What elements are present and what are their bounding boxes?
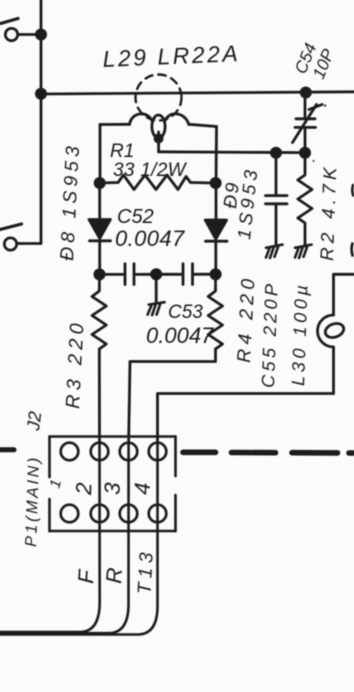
node: junction dot main wire / left bus <box>35 88 47 100</box>
wire: pin3 through-wire and exit curve <box>0 443 129 633</box>
svg-text:1S953: 1S953 <box>233 165 262 240</box>
pin 3 top circle <box>120 443 138 461</box>
wire: tap horizontal to C55/R2/C54 node <box>159 150 305 154</box>
svg-text:Đ8 1S953: Đ8 1S953 <box>57 141 84 261</box>
node: junction dot at upper contact <box>35 29 47 41</box>
node: bottom-middle junction <box>150 268 162 280</box>
inductor L29 (tapped coil) <box>100 114 217 138</box>
pin 2 top circle <box>91 443 109 461</box>
speck near R2 top <box>312 160 314 162</box>
diode D8 <box>89 183 111 274</box>
speck near C54 <box>324 104 327 107</box>
capacitor C52 (series cap left) <box>100 264 157 285</box>
svg-text:1: 1 <box>46 478 65 490</box>
resistor R1 (33 1/2W, horizontal zigzag) <box>100 175 216 190</box>
svg-text:0.0047: 0.0047 <box>115 226 185 251</box>
ground (below C55) <box>266 245 283 258</box>
ground (below C52/C53 junction) <box>148 302 165 315</box>
switch lever (upper) <box>1 19 19 24</box>
wire: pin4 through-wire and exit curve <box>0 443 158 635</box>
svg-text:33 1/2W: 33 1/2W <box>113 160 188 181</box>
diode D9 <box>205 183 227 274</box>
partial label at right edge <box>352 243 353 257</box>
svg-text:3: 3 <box>100 481 125 495</box>
svg-text:L29 LR22A: L29 LR22A <box>102 40 241 72</box>
svg-text:C53: C53 <box>168 302 203 323</box>
wire: tank left vertical <box>99 125 102 184</box>
wire: R4 bottom to pin3 <box>129 349 216 443</box>
svg-text:0.0047: 0.0047 <box>146 323 214 348</box>
capacitor C53 (series cap right) <box>156 264 215 285</box>
pin 2 bottom circle <box>91 505 109 523</box>
resistor R4 (220, vertical zigzag) <box>208 274 222 349</box>
node: bottom-left junction <box>94 268 106 280</box>
pin 4 bottom circle <box>149 505 167 523</box>
node: R1 left junction <box>94 177 106 189</box>
svg-text:F: F <box>73 568 99 585</box>
trimmer capacitor C54 <box>293 93 323 153</box>
shield: dashed circle around L29 <box>136 75 182 121</box>
svg-text:C55 220P: C55 220P <box>258 280 282 388</box>
svg-text:R3 220: R3 220 <box>62 318 89 409</box>
node: C54 top junction <box>300 87 312 99</box>
wire: main horizontal wire y~93 <box>41 92 354 94</box>
svg-text:2: 2 <box>71 482 96 496</box>
svg-text:P1(MAIN): P1(MAIN) <box>23 455 43 547</box>
pin 1 bottom circle <box>61 505 79 523</box>
inductor L30 (100u single loop) <box>318 274 354 393</box>
capacitor C55 (220P to ground) <box>266 153 288 246</box>
svg-text:R2 4.7K: R2 4.7K <box>316 163 340 261</box>
ground (below R2) <box>295 245 312 258</box>
wire: coil tap stem <box>157 132 160 152</box>
pin 1 top circle <box>61 443 79 461</box>
wire: tank right vertical <box>215 127 218 184</box>
svg-text:J2: J2 <box>23 410 45 432</box>
wire: left vertical bus from top edge down to lower switch contact <box>18 0 41 244</box>
board boundary dashed line (right run) <box>183 449 354 455</box>
wire: pin2 through-wire and exit curve <box>0 443 100 632</box>
switch lever (lower) <box>0 224 22 230</box>
switch contact (upper, open circle) <box>5 28 17 40</box>
node: tap line / C55 junction <box>270 147 282 159</box>
svg-text:R4 220: R4 220 <box>234 274 260 363</box>
connector J2 box outline (with side gaps) <box>50 437 176 532</box>
wire: L30 bottom to pin4 <box>158 394 334 444</box>
node: bottom-right junction <box>210 268 222 280</box>
svg-text:R: R <box>101 567 127 585</box>
pin 4 top circle <box>149 443 167 461</box>
board boundary dashed line (left stub) <box>0 447 14 452</box>
partial glyph at right edge (y~190) <box>352 184 353 197</box>
svg-text:4: 4 <box>130 482 155 495</box>
resistor R3 (220, vertical zigzag) <box>92 274 106 443</box>
node: tap line / R2 junction <box>299 147 311 159</box>
svg-text:R1: R1 <box>110 141 134 162</box>
svg-text:C52: C52 <box>117 206 154 228</box>
node: R1 right junction <box>210 177 222 189</box>
pin 3 bottom circle <box>120 505 138 523</box>
wire: stem to middle ground <box>155 274 158 303</box>
switch contact (lower, open circle) <box>4 238 16 250</box>
resistor R2 (4.7K, vertical zigzag) <box>298 153 312 246</box>
node: coil tap junction dot <box>154 134 164 144</box>
svg-text:L30 100µ: L30 100µ <box>288 281 312 386</box>
wire: link from upper contact to bus <box>18 33 37 36</box>
svg-text:T13: T13 <box>135 547 158 594</box>
